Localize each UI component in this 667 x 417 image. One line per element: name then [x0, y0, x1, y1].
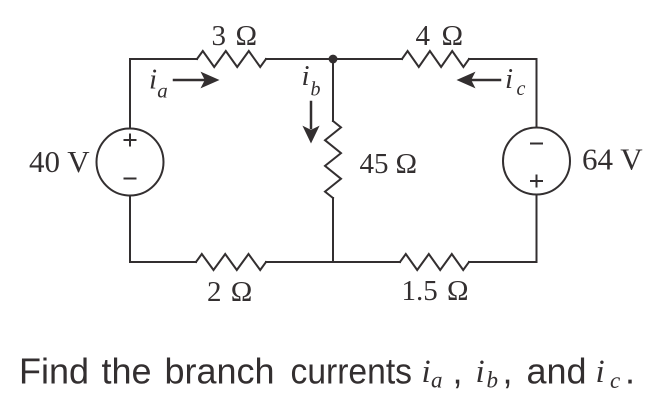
wire left-top vertical	[129, 59, 131, 129]
svg-text:64 V: 64 V	[582, 142, 643, 177]
svg-text:2Ω: 2Ω	[207, 276, 252, 308]
wire bottom-right segment	[469, 261, 537, 263]
svg-text:Findthebranchcurrents: Findthebranchcurrents	[19, 351, 412, 392]
arrowhead ib	[302, 126, 319, 144]
svg-text:ic: ic	[505, 63, 526, 100]
svg-text:40 V: 40 V	[29, 144, 90, 179]
svg-text:ib: ib	[302, 60, 321, 101]
voltage source 64V circle	[503, 128, 570, 195]
resistor R 3ohm	[197, 51, 266, 67]
svg-text:,: ,	[453, 351, 463, 392]
wire top-middle segment	[266, 58, 333, 60]
wire right-bottom vertical	[536, 195, 538, 263]
wire bottom-middle segment	[266, 261, 400, 263]
arrow shaft ic	[471, 79, 500, 82]
arrow shaft ia	[174, 79, 204, 82]
node junction dot	[329, 55, 338, 64]
arrowhead ic	[457, 72, 476, 89]
wire top-left segment	[130, 58, 197, 60]
voltage source 40V circle	[97, 129, 164, 196]
wire left-bottom vertical	[129, 196, 131, 263]
minus sign of 40V source	[125, 178, 136, 180]
wire right-top vertical	[536, 59, 538, 128]
svg-text:1.5Ω: 1.5Ω	[402, 275, 469, 307]
resistor R 45ohm	[325, 121, 341, 198]
wire middle-top vertical	[332, 59, 334, 121]
resistor R 4ohm	[402, 51, 469, 67]
svg-text:and: and	[527, 351, 587, 392]
wire middle-bottom vertical	[332, 198, 334, 262]
minus sign of 64V source	[531, 143, 542, 145]
wire top-right segment	[469, 58, 537, 60]
wire bottom-left segment	[130, 261, 196, 263]
svg-text:ia: ia	[149, 63, 168, 102]
arrow shaft ib	[310, 102, 313, 128]
plus sign of 64V source	[531, 176, 542, 187]
svg-text:3Ω: 3Ω	[212, 20, 258, 52]
svg-text:,: ,	[503, 351, 513, 392]
arrowhead ia	[201, 72, 220, 89]
resistor R 1.5ohm	[400, 254, 469, 270]
svg-text:ib: ib	[476, 354, 499, 393]
svg-text:4Ω: 4Ω	[416, 20, 464, 52]
plus sign of 40V source	[125, 135, 136, 146]
svg-text:45Ω: 45Ω	[360, 148, 418, 180]
svg-text:ic: ic	[596, 354, 621, 393]
resistor R 2ohm	[196, 254, 266, 270]
svg-text:.: .	[625, 351, 635, 392]
wire top node to 4ohm	[333, 58, 402, 60]
svg-text:ia: ia	[422, 354, 443, 393]
